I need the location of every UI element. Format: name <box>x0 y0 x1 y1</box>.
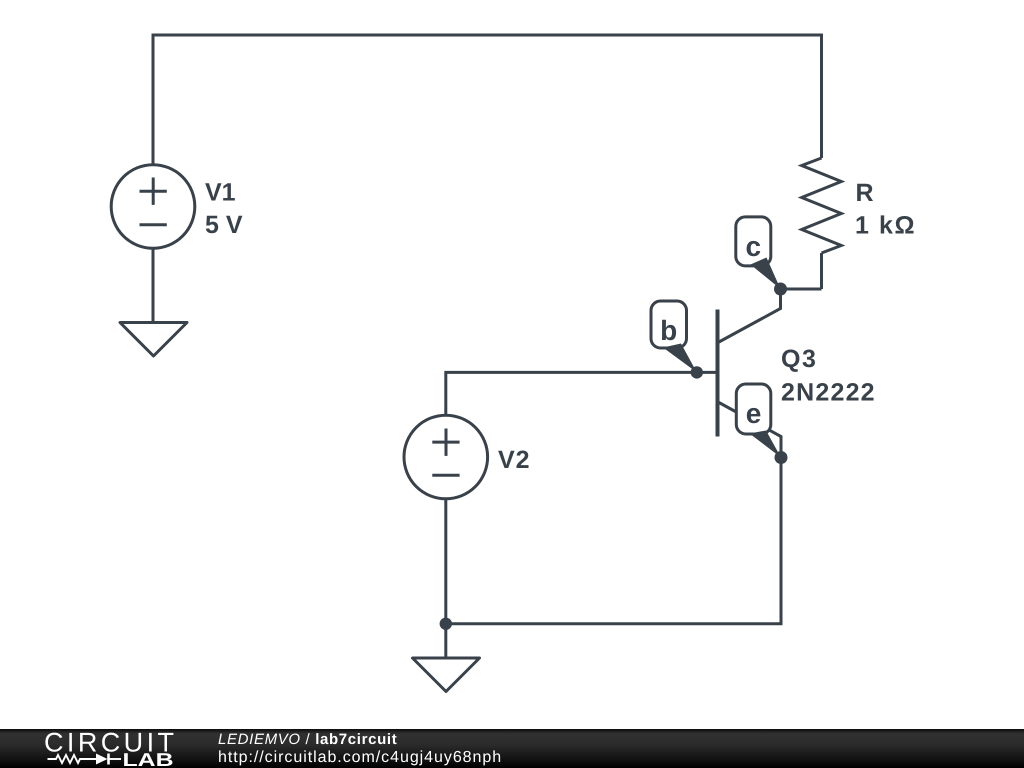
wire emitter lead <box>718 402 781 458</box>
pin label e <box>736 384 771 434</box>
ground (below V1) <box>120 323 187 357</box>
wire V2 bottom to ground node <box>444 499 447 657</box>
voltage source V1 <box>111 165 195 249</box>
junction dot V2 ground node <box>440 618 452 630</box>
pin label c <box>736 217 771 266</box>
wire V1 bottom to ground <box>152 248 155 322</box>
svg-text:5 V: 5 V <box>205 211 243 239</box>
svg-text:e: e <box>746 398 762 429</box>
svg-text:LAB: LAB <box>123 749 174 768</box>
pin label b leader tail <box>663 344 697 373</box>
svg-text:V2: V2 <box>498 446 531 474</box>
logo resistor squiggle <box>48 755 97 763</box>
junction dot emitter pin <box>775 451 788 464</box>
svg-text:R: R <box>856 179 874 207</box>
label R 1 kOhm <box>855 179 916 240</box>
svg-text:c: c <box>746 231 762 262</box>
wire top net: V1 top to resistor R top <box>153 35 822 166</box>
junction dot collector node <box>774 283 787 296</box>
wire resistor bottom to collector node <box>781 288 822 291</box>
wire collector lead <box>718 289 781 343</box>
wire base net: V2 top corner to Q3 base <box>446 372 718 416</box>
footer title text <box>218 732 397 747</box>
pin label e leader tail <box>750 431 782 458</box>
label V2 <box>498 446 531 474</box>
svg-text:Q3: Q3 <box>781 345 817 373</box>
svg-text:b: b <box>660 315 677 346</box>
label Q3 2N2222 <box>781 345 876 407</box>
pin label c leader tail <box>751 258 781 290</box>
transistor Q3 bar <box>716 310 720 437</box>
junction dot base pin <box>691 366 703 378</box>
svg-text:V1: V1 <box>205 179 236 207</box>
CircuitLab logo <box>40 728 230 768</box>
svg-text:2N2222: 2N2222 <box>781 379 876 407</box>
logo diode <box>96 754 121 765</box>
svg-text:1 kΩ: 1 kΩ <box>855 212 916 240</box>
resistor R <box>802 158 842 289</box>
wire emitter node down and across to V2 bottom <box>446 458 781 624</box>
pin label b <box>651 301 687 348</box>
ground (below V2) <box>413 658 480 692</box>
label V1 5V <box>205 179 243 239</box>
voltage source V2 <box>404 415 488 499</box>
footer bar <box>0 729 1024 768</box>
footer url <box>218 750 502 766</box>
